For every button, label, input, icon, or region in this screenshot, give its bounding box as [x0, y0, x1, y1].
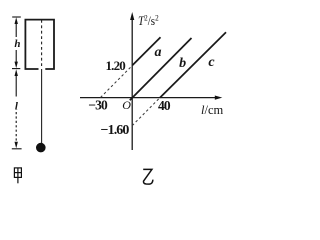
svg-text:h: h [14, 38, 20, 50]
svg-text:l: l [15, 101, 19, 113]
svg-text:−30: −30 [88, 98, 108, 113]
svg-text:c: c [208, 55, 215, 70]
svg-text:−1.60: −1.60 [101, 123, 130, 138]
svg-text:b: b [179, 56, 186, 71]
svg-text:T2/s2: T2/s2 [138, 13, 159, 28]
svg-text:a: a [155, 45, 162, 60]
svg-text:1.20: 1.20 [105, 58, 125, 73]
svg-text:40: 40 [158, 98, 171, 113]
svg-text:O: O [122, 98, 131, 112]
svg-text:l/cm: l/cm [201, 103, 224, 117]
